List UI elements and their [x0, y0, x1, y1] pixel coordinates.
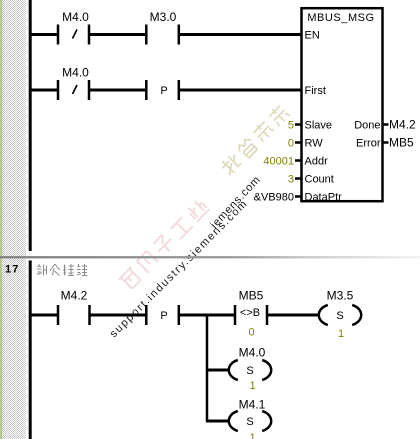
svg-text:M3.5: M3.5	[327, 289, 354, 303]
svg-text:First: First	[305, 85, 326, 97]
svg-text:&VB980: &VB980	[254, 192, 294, 204]
svg-text:MBUS_MSG: MBUS_MSG	[307, 12, 374, 24]
svg-text:M4.2: M4.2	[61, 289, 88, 303]
svg-text:Count: Count	[305, 174, 334, 186]
svg-text:MB5: MB5	[389, 136, 414, 150]
svg-text:1: 1	[249, 380, 255, 392]
svg-text:S: S	[336, 310, 343, 322]
svg-text:Slave: Slave	[305, 120, 333, 132]
svg-text:Addr: Addr	[305, 156, 329, 168]
svg-text:3: 3	[288, 174, 294, 186]
svg-text:M4.0: M4.0	[62, 66, 89, 80]
svg-text:0: 0	[288, 138, 294, 150]
svg-text:17: 17	[5, 264, 19, 276]
svg-text:MB5: MB5	[239, 289, 264, 303]
svg-text:DataPtr: DataPtr	[305, 192, 343, 204]
svg-text:Done: Done	[354, 120, 380, 132]
svg-text:Error: Error	[356, 138, 381, 150]
svg-text:M4.0: M4.0	[239, 346, 266, 360]
svg-text:S: S	[246, 416, 253, 428]
svg-text:P: P	[160, 85, 167, 97]
svg-text:M4.2: M4.2	[389, 118, 416, 132]
svg-text:1: 1	[249, 432, 255, 439]
svg-text:P: P	[160, 310, 167, 322]
svg-text:M4.0: M4.0	[62, 10, 89, 24]
svg-text:40001: 40001	[263, 156, 294, 168]
svg-text:1: 1	[338, 328, 344, 340]
svg-text:S: S	[246, 365, 253, 377]
svg-text:EN: EN	[305, 30, 320, 42]
svg-text:<>B: <>B	[240, 307, 260, 319]
svg-text:M4.1: M4.1	[239, 398, 266, 412]
svg-text:5: 5	[288, 120, 294, 132]
svg-text:0: 0	[248, 327, 254, 339]
svg-text:RW: RW	[305, 138, 324, 150]
svg-text:M3.0: M3.0	[150, 10, 177, 24]
